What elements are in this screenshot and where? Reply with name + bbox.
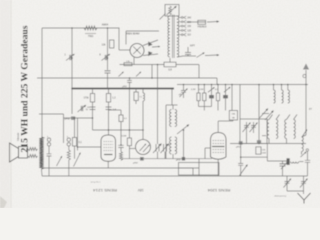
trimmer cap B: [251, 122, 256, 133]
wire y64.5: [120, 64, 165, 66]
rectifier tube (circle) REN904W: [130, 44, 144, 58]
tuning coil pair A right: [276, 120, 278, 139]
pickup socket pair 1: [47, 138, 50, 141]
node bus x92.5: [92, 88, 94, 90]
wire bus end down to IF frame: [171, 89, 173, 106]
trimmer capacitor C1 at x72: [70, 55, 71, 60]
tube V3 (round, with arrows): [136, 140, 151, 155]
node bus x108.5: [108, 88, 110, 90]
wire vertical x72: [71, 28, 73, 114]
resistor box x204.3: [203, 85, 205, 94]
screening box V4 bottom: [179, 163, 220, 176]
output choke winding: [39, 137, 43, 169]
wire: antenna bus y84.5: [177, 84, 308, 86]
capacitor KPT: [187, 47, 189, 52]
wire diag to switch: [160, 14, 166, 20]
tuning coil pair A left: [267, 120, 269, 139]
power transformer secondary winding: [177, 16, 179, 57]
wire: short line y114 left: [39, 113, 64, 115]
output trimmer cap 1 below rail: [286, 176, 288, 179]
wire: vertical x217 joining y78 to antenna line: [216, 78, 218, 85]
loudspeaker driver: [19, 147, 28, 159]
IF coil upper: [170, 110, 172, 127]
trimmer box frame: [240, 119, 267, 144]
resistor box R 170k: [92, 89, 94, 94]
ground symbol: [298, 193, 311, 204]
pickup socket pair 2: [67, 138, 70, 141]
wire stub to rectifier: [118, 28, 120, 50]
wire: mid-bottom line y158.7: [122, 158, 212, 160]
wire x199 down: [198, 65, 200, 79]
wave switch arrows: [57, 156, 63, 166]
coil ooo: [291, 162, 299, 164]
wire transformer bottom to y64 line: [169, 58, 171, 62]
coil top hooks: [269, 115, 273, 120]
resistor box R 12k right: [108, 89, 110, 94]
small diag arrows over row: [208, 87, 215, 92]
resistor box 12k near x111: [110, 40, 114, 48]
anode frame wire: [126, 30, 159, 32]
tube V2 REN904 dome: [101, 135, 116, 161]
cap blob on line at x183.5: [182, 157, 185, 161]
switch arrows on y78: [119, 72, 124, 77]
output trimmer cap 2 below rail: [303, 176, 305, 179]
output transformer winding b: [28, 155, 38, 158]
voltage taps: [178, 17, 181, 19]
resistor box x218: [217, 85, 219, 94]
wire right vertical x306: [305, 85, 307, 136]
cap uF02 lower: [239, 141, 243, 144]
wire x152 down: [151, 65, 153, 79]
grid capacitor + leak at x121: [109, 109, 122, 111]
cathode resistor box 12k: [256, 147, 261, 154]
mains lower lead with switch: [183, 55, 196, 57]
resistor on top rail with label 70 ohm: [84, 26, 97, 30]
fuse to mains: [187, 21, 198, 23]
filled trim cap x211.5: [211, 85, 213, 96]
wire x74.5 down with resistor 0,1M: [74, 118, 76, 138]
mains switch box: [165, 5, 179, 17]
power transformer core: [172, 15, 174, 59]
resistor box 0,5M: [128, 89, 130, 139]
coil x273.5: [273, 85, 275, 91]
resistor under socket 2: [68, 146, 70, 150]
volume control arrow: [240, 156, 242, 158]
resistor box 10k: [231, 85, 233, 111]
coil x287.8: [287, 85, 289, 91]
resistor box x198.5: [198, 85, 200, 94]
wire: line y168.5: [42, 167, 199, 169]
screen resistor box x136: [135, 89, 137, 93]
wire y143.5: [230, 143, 306, 145]
lower frame rect: [241, 144, 268, 158]
wire x157.5 long down: [157, 65, 159, 145]
band switch arrow centre: [177, 125, 189, 135]
aerial series coil: [302, 135, 307, 137]
loudspeaker horn: [10, 143, 19, 162]
wire: left vertical rail: [41, 28, 43, 137]
left stub lines: [262, 113, 269, 115]
electrolytic capacitor (dark): [287, 158, 290, 165]
aerial selector switch arrow: [301, 152, 303, 155]
capacitor at x108 y72: [105, 71, 111, 73]
capacitor uF02 on y118: [71, 116, 75, 119]
tuning coil pair B left: [285, 120, 287, 139]
heater tap triangles: [148, 41, 152, 46]
trimmer cap arrow near x82 y108: [81, 106, 82, 111]
tube V2 grid dashes: [104, 141, 114, 143]
node on rail x107.5: [107, 27, 109, 29]
wire y161: [266, 157, 268, 161]
antenna symbol: [303, 64, 309, 70]
IF transformer frame: [165, 105, 167, 159]
wire x63.5 down from y114: [63, 114, 65, 143]
cap on right drop: [307, 152, 309, 161]
wire y130 to V3: [93, 129, 144, 131]
output transformer winding a: [28, 148, 38, 151]
trimmer cap x183 under bus: [183, 85, 185, 91]
resistor box on y64: [164, 62, 176, 67]
filled trim cap x225.5: [225, 85, 227, 96]
resistor box 17k on y64.5: [124, 63, 132, 66]
heater wires to transformer: [143, 40, 158, 46]
wire x259: [258, 85, 260, 141]
coupling cap on y158.7: [140, 157, 144, 161]
tube V4 RENS1204 dome: [211, 133, 227, 158]
wire: thick chassis bus: [72, 88, 174, 90]
bottom-left page shadow: [0, 196, 7, 208]
coupling cap x129.5: [129, 77, 131, 79]
wire vertical x108: [107, 28, 109, 70]
trimmer cap A: [244, 122, 249, 133]
wire: top supply rail: [42, 27, 120, 29]
IF coil lower: [170, 137, 172, 154]
coil x281.5: [281, 85, 283, 91]
trimmer cap pair right of V3: [156, 144, 159, 152]
tuning coil pair B right: [294, 120, 296, 139]
trimmer capacitor C2 at x108: [105, 55, 106, 60]
wire: bottom rail: [42, 175, 308, 177]
wire x77.5: [77, 118, 79, 151]
V3 anode feed with squiggle: [142, 88, 144, 90]
V2 left pin wire: [78, 146, 102, 148]
wire: horizontal line y78: [37, 77, 217, 79]
electrolytic cap: [282, 161, 284, 164]
power transformer primary winding: [168, 16, 170, 57]
band switch arrows: [260, 109, 269, 119]
node on rail x72: [71, 27, 73, 29]
cap under socket 1: [48, 146, 50, 154]
